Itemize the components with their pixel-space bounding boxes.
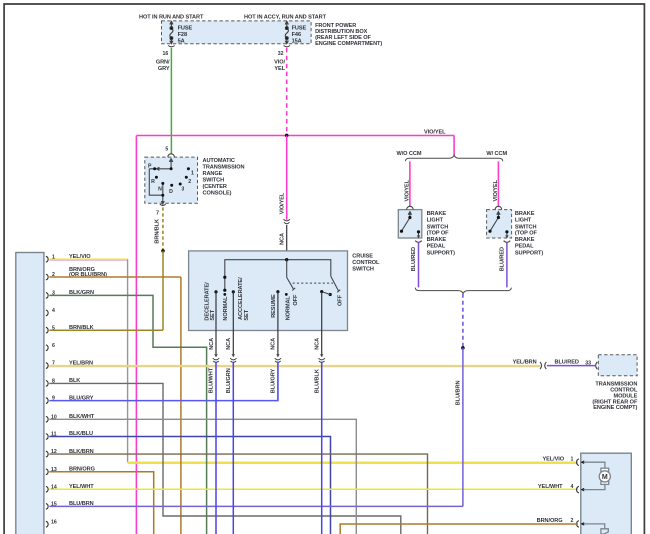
range switch contact dots bbox=[153, 167, 190, 196]
svg-text:(REAR LEFT SIDE OF: (REAR LEFT SIDE OF bbox=[315, 35, 371, 41]
svg-text:BLU/RED: BLU/RED bbox=[411, 247, 417, 271]
pin hooks 1-16 bbox=[46, 256, 48, 527]
wire pin1 gray vertical run bbox=[127, 259, 129, 462]
splice dot BRN/BLK bbox=[161, 249, 165, 253]
junction dot cruise feed bbox=[285, 258, 288, 261]
svg-text:VIO/YEL: VIO/YEL bbox=[279, 192, 285, 214]
svg-text:M: M bbox=[602, 474, 608, 481]
svg-text:SET: SET bbox=[210, 309, 216, 320]
wire BLU/GRY stub bbox=[277, 362, 279, 401]
cruise mechanical dashed link bbox=[293, 282, 333, 284]
svg-text:4: 4 bbox=[571, 484, 574, 490]
svg-text:HOT IN ACCY, RUN AND START: HOT IN ACCY, RUN AND START bbox=[244, 15, 327, 21]
label TRANSMISSION CONTROL MODULE bbox=[592, 382, 638, 412]
svg-text:33: 33 bbox=[585, 360, 591, 366]
svg-text:NORMAL: NORMAL bbox=[223, 296, 229, 321]
left brake switch dots bbox=[400, 216, 420, 234]
wire BLU/BRN vertical bbox=[462, 348, 464, 507]
wire BLU/BLK bbox=[321, 362, 323, 534]
svg-text:BLU/BRN: BLU/BRN bbox=[456, 381, 462, 406]
splice dot BLU/RED to BLU/BRN bbox=[461, 346, 465, 350]
svg-text:RANGE: RANGE bbox=[203, 171, 223, 177]
svg-text:SWITCH: SWITCH bbox=[203, 177, 225, 183]
svg-text:ACCCELERATE/: ACCCELERATE/ bbox=[238, 277, 244, 320]
wire BRN/BLK dashed below range switch bbox=[162, 207, 164, 251]
servo internal wiring pin1 to motor bbox=[584, 462, 605, 468]
svg-text:OFF: OFF bbox=[293, 294, 299, 306]
wire pin10 BLK/WHT bbox=[49, 419, 356, 534]
wire VIO/YEL to right brake switch bbox=[497, 161, 499, 206]
svg-text:CRUISE: CRUISE bbox=[352, 254, 373, 260]
svg-text:W/O CCM: W/O CCM bbox=[397, 151, 422, 157]
wire pin2 BRN/ORG horizontal bbox=[49, 276, 181, 278]
svg-text:1: 1 bbox=[191, 170, 194, 176]
svg-text:W/ CCM: W/ CCM bbox=[486, 151, 507, 157]
wire BLU/RED to TCM bbox=[547, 365, 595, 367]
cruise control switch box bbox=[189, 251, 348, 331]
wire YEL/VIO long horizontal to servo bbox=[128, 461, 578, 463]
svg-text:YEL/BRN: YEL/BRN bbox=[513, 359, 537, 365]
wire NCA black cruise input bbox=[286, 225, 288, 260]
svg-text:16: 16 bbox=[163, 51, 169, 57]
label AUTOMATIC TRANSMISSION RANGE SWITCH (CENTER CONSOLE) bbox=[203, 158, 245, 197]
wire pin3 BLK/GRN bbox=[49, 295, 206, 534]
junction dot VIO/YEL trunk bbox=[285, 134, 289, 138]
connector bowtie at range switch pin 7 bbox=[160, 201, 166, 205]
connector arc at TCM pin bbox=[596, 362, 598, 369]
svg-text:7: 7 bbox=[156, 211, 159, 217]
svg-text:HOT IN RUN AND START: HOT IN RUN AND START bbox=[139, 15, 204, 21]
svg-text:SWITCH: SWITCH bbox=[352, 267, 374, 273]
fuse F28 5A bbox=[168, 21, 174, 46]
fuse F46 15A bbox=[284, 21, 290, 46]
svg-text:YEL/WHT: YEL/WHT bbox=[538, 484, 563, 490]
svg-text:SWITCH: SWITCH bbox=[515, 224, 537, 230]
left brake light switch box bbox=[398, 210, 422, 238]
wire pin13 BRN/ORG bbox=[49, 472, 153, 534]
cruise feed line bbox=[225, 260, 331, 278]
svg-text:NCA: NCA bbox=[271, 338, 277, 350]
svg-text:P: P bbox=[148, 164, 152, 170]
front power distribution box (dashed fuse box) bbox=[162, 21, 312, 44]
svg-text:PEDAL: PEDAL bbox=[427, 244, 446, 250]
svg-text:FUSE: FUSE bbox=[178, 25, 193, 31]
svg-text:VIO/: VIO/ bbox=[274, 59, 285, 65]
automatic transmission range switch (dashed box) bbox=[145, 157, 198, 203]
svg-text:BRN/BLK: BRN/BLK bbox=[155, 219, 161, 244]
wire BRN/ORG servo from bottom bbox=[340, 524, 578, 534]
svg-text:GRY: GRY bbox=[158, 66, 170, 72]
cruise left pole lever bbox=[223, 276, 226, 296]
svg-text:BRAKE: BRAKE bbox=[427, 211, 447, 217]
pin wire labels bbox=[69, 254, 107, 507]
label BRAKE LIGHT SWITCH right bbox=[515, 211, 543, 257]
svg-text:(CENTER: (CENTER bbox=[203, 184, 227, 190]
svg-text:NORMAL: NORMAL bbox=[285, 296, 291, 321]
svg-text:5A: 5A bbox=[178, 38, 185, 44]
svg-text:GRN/: GRN/ bbox=[156, 59, 170, 65]
svg-text:BLU/WHT: BLU/WHT bbox=[209, 367, 215, 393]
svg-text:BLU/RED: BLU/RED bbox=[555, 359, 579, 365]
svg-text:NCA: NCA bbox=[315, 338, 321, 350]
label CRUISE CONTROL SWITCH bbox=[352, 254, 380, 273]
svg-text:(TOP OF: (TOP OF bbox=[515, 231, 538, 237]
wire VIO/YEL drop to brace bbox=[453, 136, 455, 156]
svg-text:ENGINE COMPARTMENT): ENGINE COMPARTMENT) bbox=[315, 41, 382, 47]
svg-text:15A: 15A bbox=[292, 38, 302, 44]
cruise right pole lever bbox=[320, 276, 340, 296]
connector arc left brake input bbox=[407, 206, 414, 209]
brace split W/O CCM / W CCM bbox=[405, 155, 502, 161]
label VIO/YEL bbox=[274, 59, 286, 72]
pin numbers 1-16 bbox=[51, 254, 57, 525]
inline connector pair on TCM wire bbox=[540, 362, 546, 369]
svg-text:VIO/YEL: VIO/YEL bbox=[424, 130, 446, 136]
wire VIO/YEL to left brake switch bbox=[409, 161, 411, 206]
svg-text:(TOP OF: (TOP OF bbox=[427, 231, 450, 237]
cruise internal output wires bbox=[216, 292, 322, 331]
brace join below brake switches bbox=[415, 288, 511, 294]
svg-text:6: 6 bbox=[52, 343, 55, 349]
wire YEL/VIO tracer on long horizontal bbox=[128, 462, 578, 464]
wire VIO/YEL dashed vertical from fuse F46 bbox=[286, 48, 288, 135]
svg-text:LIGHT: LIGHT bbox=[427, 218, 444, 224]
servo solenoid partial bbox=[601, 529, 608, 534]
wire pin7 YEL/BRN tan tracer bbox=[49, 366, 540, 368]
left connector body bbox=[16, 253, 44, 534]
svg-text:BLU/GRY: BLU/GRY bbox=[271, 368, 277, 393]
svg-text:16: 16 bbox=[51, 519, 57, 525]
wire pin15 BLU/BRN horizontal bbox=[49, 505, 463, 507]
servo pin1 connector bbox=[577, 459, 579, 466]
svg-text:5: 5 bbox=[165, 147, 168, 153]
svg-text:VIO/YEL: VIO/YEL bbox=[404, 179, 410, 201]
wire GRN/GRY vertical bbox=[170, 48, 172, 154]
wire BLU/WHT bbox=[215, 362, 217, 534]
svg-text:SUPPORT): SUPPORT) bbox=[515, 250, 543, 256]
left brake exit connector bbox=[415, 235, 422, 242]
svg-text:TRANSMISSION: TRANSMISSION bbox=[203, 164, 245, 170]
wire pin7 YEL/BRN horizontal bbox=[49, 365, 540, 367]
label GRN/GRY bbox=[156, 59, 170, 72]
left brake switch internals bbox=[402, 212, 419, 238]
svg-text:BLU/BLK: BLU/BLK bbox=[314, 369, 320, 393]
label FRONT POWER DISTRIBUTION BOX bbox=[315, 23, 382, 47]
wire VIO/YEL horizontal trunk bbox=[136, 135, 454, 137]
wire BLU/RED right bbox=[506, 242, 508, 287]
cruise middle pole stem bbox=[286, 260, 288, 278]
right brake light switch box (dashed) bbox=[487, 210, 512, 238]
wire VIO/YEL solid from trunk to cruise connector bbox=[286, 136, 288, 220]
range switch position labels bbox=[148, 164, 194, 196]
svg-text:R: R bbox=[151, 179, 155, 185]
servo internal wiring motor to pin4 bbox=[584, 484, 605, 489]
inline connector on cruise input bbox=[284, 219, 290, 224]
label NCA x4 bbox=[209, 338, 321, 350]
svg-text:ENGINE COMPT): ENGINE COMPT) bbox=[593, 405, 637, 411]
svg-text:YEL: YEL bbox=[274, 66, 285, 72]
svg-text:NCA: NCA bbox=[209, 338, 215, 350]
wire pin9 BLU/GRY bbox=[49, 362, 278, 401]
svg-text:2: 2 bbox=[571, 518, 574, 524]
svg-text:F46: F46 bbox=[292, 32, 301, 38]
svg-text:D: D bbox=[169, 189, 173, 195]
label FUSE F46 15A bbox=[292, 25, 307, 44]
svg-text:N: N bbox=[158, 187, 162, 193]
connector arc right brake input bbox=[495, 206, 502, 209]
wire pin12 BLK/BRN bbox=[49, 454, 427, 534]
wire pin2 BRN/ORG vertical bbox=[180, 277, 182, 534]
cruise ACCEL contact bbox=[232, 290, 235, 293]
wire pin14 YEL/WHT bbox=[49, 488, 578, 490]
wire pin5 BRN/BLK horizontal bbox=[49, 329, 163, 331]
right brake exit connector bbox=[504, 235, 511, 242]
wire BLU/RED dashed drop bbox=[462, 294, 464, 348]
svg-text:4: 4 bbox=[52, 308, 55, 314]
wire BLU/RED left bbox=[418, 242, 420, 287]
right brake switch dots bbox=[488, 216, 508, 234]
svg-text:SUPPORT): SUPPORT) bbox=[427, 250, 455, 256]
wire BLU/GRN bbox=[232, 362, 234, 534]
svg-text:2: 2 bbox=[188, 179, 191, 185]
servo pin2 connector bbox=[577, 521, 579, 528]
label FUSE F28 5A bbox=[178, 25, 193, 44]
svg-text:RESUME: RESUME bbox=[271, 294, 277, 318]
svg-text:BRAKE: BRAKE bbox=[515, 237, 535, 243]
svg-text:VIO/YEL: VIO/YEL bbox=[493, 179, 499, 201]
label BRAKE LIGHT SWITCH left bbox=[427, 211, 455, 257]
wire pin1 YEL/VIO violet tracer bbox=[49, 260, 127, 262]
wire VIO/YEL long left vertical bbox=[135, 136, 137, 534]
svg-text:PEDAL: PEDAL bbox=[515, 244, 534, 250]
svg-text:YEL/VIO: YEL/VIO bbox=[542, 457, 564, 463]
svg-text:3: 3 bbox=[181, 187, 184, 193]
svg-text:NCA: NCA bbox=[279, 233, 285, 245]
servo internal wiring pin2 bbox=[584, 524, 605, 529]
svg-text:SWITCH: SWITCH bbox=[427, 224, 449, 230]
servo pin4 connector bbox=[577, 486, 579, 493]
svg-text:32: 32 bbox=[278, 51, 284, 57]
svg-text:CONSOLE): CONSOLE) bbox=[203, 190, 232, 196]
right brake switch internals bbox=[490, 212, 507, 238]
svg-text:AUTOMATIC: AUTOMATIC bbox=[203, 158, 235, 164]
svg-text:FUSE: FUSE bbox=[292, 25, 307, 31]
cruise DECEL contact bbox=[214, 290, 217, 293]
servo box bbox=[581, 453, 632, 534]
inline connectors on cruise outputs bbox=[213, 354, 325, 362]
svg-text:BRAKE: BRAKE bbox=[427, 237, 447, 243]
svg-text:LIGHT: LIGHT bbox=[515, 218, 532, 224]
servo motor M bbox=[599, 468, 610, 484]
wire pin11 BLK/BLU bbox=[49, 437, 330, 534]
cruise middle lever bbox=[276, 277, 295, 295]
range switch internals bbox=[149, 159, 173, 204]
svg-text:BLU/RED: BLU/RED bbox=[500, 247, 506, 271]
svg-text:CONTROL: CONTROL bbox=[352, 260, 380, 266]
TCM box (dashed) bbox=[598, 355, 637, 376]
connector arc at range switch input bbox=[168, 154, 175, 157]
wire pin1 YEL/VIO horizontal bbox=[49, 258, 127, 260]
svg-text:BRAKE: BRAKE bbox=[515, 211, 535, 217]
wire BRN/BLK solid to pin5 wire bbox=[162, 251, 164, 330]
cruise output NCA wires below box bbox=[216, 331, 322, 357]
svg-text:BLU/GRN: BLU/GRN bbox=[226, 368, 232, 393]
svg-text:MODULE: MODULE bbox=[614, 393, 638, 399]
svg-text:1: 1 bbox=[571, 457, 574, 463]
svg-text:NCA: NCA bbox=[226, 338, 232, 350]
svg-text:OFF: OFF bbox=[338, 294, 344, 306]
svg-text:F28: F28 bbox=[178, 32, 187, 38]
svg-text:BRN/ORG: BRN/ORG bbox=[537, 518, 563, 524]
svg-text:SET: SET bbox=[244, 309, 250, 320]
wire pin8 BLK bbox=[49, 383, 401, 534]
